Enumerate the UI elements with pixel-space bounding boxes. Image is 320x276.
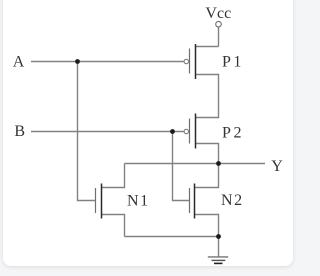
svg-text:Vcc: Vcc [205,5,231,22]
wire: B junction to N2 gate [173,132,190,201]
wire: N1 drain to output line [102,164,125,188]
svg-text:P1: P1 [222,54,244,71]
ground [208,257,228,264]
transistor N2 [190,184,195,219]
Vcc terminal circle [216,21,222,27]
wire: P1 drain to P2 source [196,75,219,118]
node: output Y junction dot [216,161,221,166]
wire: P2 drain to output node [196,144,219,164]
transistor N1 [96,184,102,219]
transistor P2 [184,114,195,149]
node: ground junction dot [216,234,221,239]
wire: P1 source lead [196,46,219,48]
svg-text:Y: Y [271,158,283,175]
wire: output Y horizontal [125,163,266,165]
wire: input B horizontal [31,131,184,133]
svg-text:N1: N1 [127,193,150,210]
wire: ground stub [218,237,220,257]
wire: bottom rail [125,236,219,238]
transistor P1 [184,44,195,79]
wire: N1 source down [102,215,125,237]
wire: N2 source down [195,215,219,237]
wire: Vcc stub [218,27,220,47]
svg-text:N2: N2 [221,192,244,209]
svg-text:B: B [14,123,25,140]
node: A junction dot [75,59,80,64]
svg-text:A: A [13,53,25,70]
wire: input A horizontal [31,61,184,63]
svg-text:P2: P2 [222,124,244,141]
wire: N2 drain to output node [195,164,219,188]
wire: A junction to N1 gate [78,62,96,201]
node: B junction dot [170,129,175,134]
